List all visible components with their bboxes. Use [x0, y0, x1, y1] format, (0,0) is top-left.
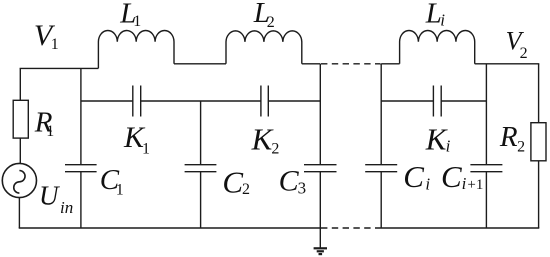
- capacitor Ci+1: [470, 165, 502, 172]
- svg-text:i: i: [446, 137, 451, 156]
- svg-text:3: 3: [298, 178, 307, 197]
- AC source Uin: [2, 163, 36, 197]
- capacitor Ci: [365, 165, 397, 172]
- capacitor C1: [65, 165, 97, 172]
- wire: section-i left vertical, top rail to Ci: [380, 64, 382, 165]
- node C3 vertical: top rail to C3: [319, 64, 321, 165]
- svg-text:1: 1: [142, 140, 150, 157]
- wire: C3 through bottom rail to ground: [319, 172, 321, 248]
- svg-text:2: 2: [267, 14, 275, 31]
- label node V1: [34, 19, 59, 53]
- label Uin: [39, 181, 73, 218]
- label C3: [279, 165, 307, 198]
- capacitor K2: [261, 86, 268, 117]
- wire: C2 branch from K row: [200, 101, 202, 165]
- label Ci: [403, 159, 430, 194]
- label node V2: [506, 26, 528, 62]
- label Li: [425, 0, 446, 29]
- node V1 branch: vertical from top stub to C1: [80, 68, 82, 164]
- wire: Ci+1 to bottom rail: [485, 172, 487, 228]
- wire: top rail to Li: [381, 63, 399, 65]
- wire: left rail from V1 stub down to R1: [19, 68, 21, 100]
- label C1: [100, 164, 124, 198]
- capacitor C2: [185, 165, 217, 172]
- svg-text:1: 1: [133, 13, 141, 30]
- wire: K row, node V1 branch to K1: [81, 100, 133, 102]
- inductor L1: [98, 31, 174, 69]
- wire: C1 to bottom rail: [80, 172, 82, 228]
- svg-text:C: C: [403, 159, 424, 194]
- resistor R1: [13, 100, 28, 138]
- svg-text:1: 1: [116, 181, 124, 198]
- svg-text:+1: +1: [467, 177, 483, 193]
- svg-text:i: i: [425, 175, 430, 194]
- svg-text:R: R: [499, 121, 518, 153]
- resistor R2: [531, 123, 546, 161]
- bottom rail (right solid part): [381, 227, 540, 229]
- wire: C2 to bottom rail: [200, 172, 202, 228]
- node V2 branch: vertical from top rail to Ci+1: [485, 64, 487, 165]
- wire: R1 to source: [19, 138, 21, 163]
- inductor Li: [400, 31, 475, 64]
- wire: V1 top stub: [20, 67, 99, 69]
- svg-text:C: C: [441, 159, 462, 194]
- wire: Ki to node V2 branch: [441, 100, 486, 102]
- label R1: [34, 106, 55, 140]
- inductor L2: [226, 31, 302, 64]
- svg-text:2: 2: [520, 45, 528, 62]
- capacitor C3: [304, 165, 337, 172]
- svg-text:U: U: [39, 181, 60, 211]
- wire: Li to right rail: [475, 63, 540, 65]
- capacitor Ki: [433, 86, 441, 117]
- svg-text:2: 2: [271, 140, 279, 157]
- wire: K row section i, left: [381, 100, 433, 102]
- label Ki: [425, 121, 451, 156]
- label K2: [251, 121, 280, 157]
- svg-text:in: in: [60, 198, 73, 217]
- wire: R2 to bottom rail: [538, 161, 540, 228]
- label L2: [253, 0, 275, 31]
- wire: dashed continuation of top rail: [321, 63, 381, 65]
- wire: K1 to K2: [141, 100, 261, 102]
- label Ci+1: [441, 159, 483, 194]
- svg-text:C: C: [222, 164, 243, 199]
- wire: dashed continuation of bottom rail: [321, 227, 381, 229]
- svg-text:1: 1: [51, 36, 59, 53]
- label L1: [119, 0, 141, 30]
- wire: L2 to node C3: [302, 63, 321, 65]
- svg-text:2: 2: [517, 139, 525, 156]
- wire: Ci to bottom rail: [380, 172, 382, 228]
- svg-text:1: 1: [46, 123, 54, 140]
- wire: K2 to node C3: [268, 100, 320, 102]
- wire: L1 to L2: [174, 63, 226, 65]
- label K1: [123, 121, 150, 157]
- label C2: [222, 164, 250, 199]
- wire: source to bottom rail: [18, 198, 20, 228]
- bottom rail (left solid part): [19, 227, 321, 229]
- label R2: [499, 121, 525, 156]
- ground: [314, 248, 327, 254]
- svg-text:i: i: [462, 174, 467, 193]
- svg-text:i: i: [440, 10, 445, 29]
- svg-text:C: C: [279, 165, 300, 198]
- svg-text:2: 2: [242, 181, 250, 198]
- wire: right rail, top rail to R2: [538, 64, 540, 123]
- capacitor K1: [133, 86, 141, 117]
